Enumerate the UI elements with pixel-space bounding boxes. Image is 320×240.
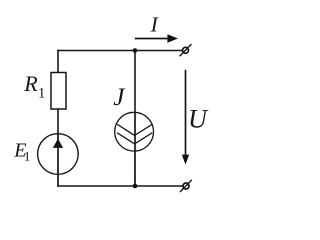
current source J <box>115 112 154 151</box>
wire top horizontal <box>57 50 182 52</box>
svg-text:R: R <box>23 71 38 96</box>
source E1 <box>38 134 79 175</box>
current arrow I <box>135 34 178 42</box>
terminal top-right <box>180 44 192 56</box>
terminal bottom-right <box>180 180 192 192</box>
wire middle branch upper <box>134 51 136 113</box>
svg-text:U: U <box>188 105 209 134</box>
svg-text:I: I <box>150 13 159 37</box>
wire bottom horizontal <box>57 185 183 187</box>
voltage arrow U <box>182 70 189 165</box>
wire through J <box>134 112 136 186</box>
junction node top <box>133 48 138 53</box>
resistor R1 <box>51 73 66 110</box>
label R1 <box>23 71 45 101</box>
svg-text:1: 1 <box>24 148 31 163</box>
wire through E1 <box>57 134 59 187</box>
E1 arrow <box>53 139 63 148</box>
label E1 <box>13 139 30 163</box>
wire left branch upper <box>57 50 59 73</box>
svg-text:J: J <box>113 84 126 111</box>
wire resistor to E1 <box>57 109 59 134</box>
junction node bottom <box>133 184 138 189</box>
svg-text:1: 1 <box>38 85 45 101</box>
